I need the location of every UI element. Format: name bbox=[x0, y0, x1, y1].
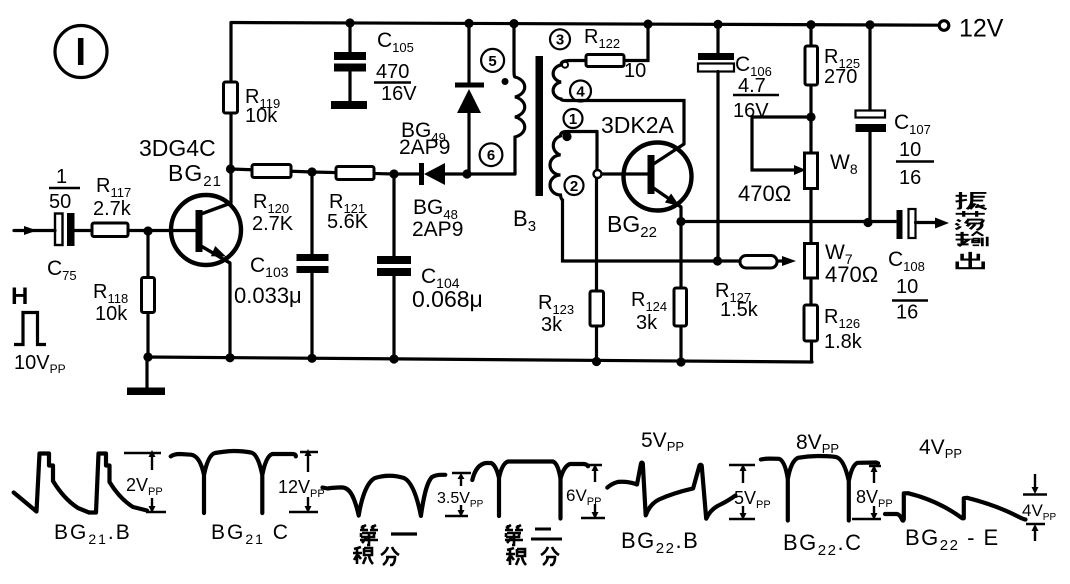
svg-text:3k: 3k bbox=[541, 314, 563, 336]
svg-text:3k: 3k bbox=[636, 312, 658, 334]
svg-text:10k: 10k bbox=[245, 105, 278, 127]
svg-text:2AP9: 2AP9 bbox=[412, 218, 463, 241]
svg-text:0.033μ: 0.033μ bbox=[234, 283, 302, 308]
svg-text:3: 3 bbox=[556, 32, 564, 49]
svg-text:16V: 16V bbox=[381, 83, 417, 105]
svg-text:0.068μ: 0.068μ bbox=[412, 286, 483, 312]
svg-text:16: 16 bbox=[896, 302, 918, 324]
svg-text:270: 270 bbox=[824, 66, 857, 88]
svg-text:470Ω: 470Ω bbox=[738, 181, 791, 206]
svg-text:10k: 10k bbox=[95, 303, 128, 325]
svg-text:4: 4 bbox=[576, 84, 585, 101]
svg-text:10: 10 bbox=[899, 139, 921, 161]
svg-text:16V: 16V bbox=[733, 100, 769, 122]
svg-text:470Ω: 470Ω bbox=[825, 262, 878, 287]
svg-text:1: 1 bbox=[569, 111, 577, 128]
svg-text:6: 6 bbox=[487, 147, 495, 164]
svg-text:16: 16 bbox=[899, 167, 921, 189]
svg-text:5: 5 bbox=[488, 53, 496, 70]
svg-text:10: 10 bbox=[624, 60, 646, 82]
svg-text:12V: 12V bbox=[959, 15, 1004, 43]
svg-text:5.6K: 5.6K bbox=[327, 211, 369, 233]
svg-text:H: H bbox=[11, 283, 28, 310]
svg-text:2AP9: 2AP9 bbox=[399, 136, 450, 159]
svg-text:2.7K: 2.7K bbox=[252, 213, 294, 235]
svg-text:1: 1 bbox=[56, 166, 67, 188]
svg-text:50: 50 bbox=[49, 191, 71, 213]
svg-text:2: 2 bbox=[570, 178, 578, 195]
svg-text:1.8k: 1.8k bbox=[824, 331, 863, 353]
svg-text:10: 10 bbox=[896, 276, 918, 298]
svg-text:2.7k: 2.7k bbox=[93, 198, 132, 220]
svg-text:3DK2A: 3DK2A bbox=[601, 112, 675, 138]
svg-text:3DG4C: 3DG4C bbox=[139, 135, 216, 161]
svg-text:1.5k: 1.5k bbox=[720, 299, 759, 321]
svg-text:470: 470 bbox=[376, 61, 409, 83]
